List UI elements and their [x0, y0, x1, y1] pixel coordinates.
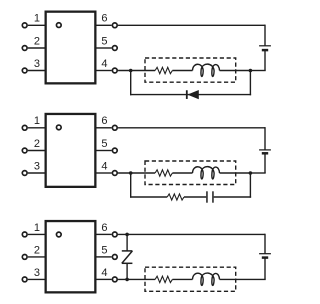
snubber capacitor	[206, 191, 208, 202]
junction left	[129, 171, 133, 175]
coil row wire resistor-to-inductor	[172, 172, 192, 174]
svg-text:4: 4	[101, 58, 107, 70]
pin 1 index mark	[56, 23, 61, 28]
svg-text:6: 6	[101, 13, 107, 25]
svg-text:1: 1	[34, 115, 40, 127]
pin 1 wire	[28, 233, 45, 235]
coil resistor	[155, 67, 172, 73]
diode (flyback)	[189, 91, 199, 99]
pin 4 wire	[97, 172, 112, 174]
pin 2 wire	[28, 47, 45, 49]
coil row wire resistor-to-inductor	[172, 70, 192, 72]
coil resistor	[155, 170, 172, 176]
coil inductance	[193, 167, 220, 179]
terminal pin 2	[22, 255, 27, 260]
battery	[259, 45, 271, 47]
pin 2 wire	[28, 256, 45, 258]
terminal pin 1	[22, 125, 27, 130]
IC package (6-pin relay outline)	[46, 114, 96, 187]
coil inductance	[193, 273, 220, 285]
terminal pin 3	[22, 277, 27, 282]
svg-text:2: 2	[34, 138, 40, 150]
varistor (surge absorber)	[122, 250, 133, 252]
terminal pin 5	[112, 255, 117, 260]
pin 1 wire	[28, 24, 45, 26]
terminal pin 5	[112, 46, 117, 51]
suppressor branch wire	[130, 196, 167, 198]
svg-text:3: 3	[34, 267, 40, 279]
pin 3 wire	[28, 278, 45, 280]
pin 5 wire	[97, 150, 112, 152]
svg-text:1: 1	[34, 13, 40, 25]
left drop wire	[130, 71, 132, 96]
coil row wire inductor-to-node	[220, 172, 251, 174]
junction pin6 node	[125, 233, 129, 237]
svg-text:3: 3	[34, 160, 40, 172]
pin 2 wire	[28, 150, 45, 152]
terminal pin 3	[22, 68, 27, 73]
battery	[259, 149, 271, 151]
pin 4 wire	[97, 70, 112, 72]
junction left	[129, 69, 133, 73]
wire battery to coil row	[264, 50, 266, 70]
wire pin4 to coil	[118, 278, 155, 280]
snubber resistor	[167, 194, 184, 200]
pin 5 wire	[97, 256, 112, 258]
junction pin4 node	[125, 278, 129, 282]
right drop wire	[249, 173, 251, 198]
terminal pin 4	[112, 171, 117, 176]
wire pin6 to battery	[118, 233, 265, 235]
pin 3 wire	[28, 70, 45, 72]
wire pin4 to coil	[118, 172, 155, 174]
wire battery to coil row	[264, 153, 266, 173]
terminal pin 2	[22, 148, 27, 153]
wire pin4 to coil	[118, 70, 155, 72]
terminal pin 5	[112, 148, 117, 153]
coil resistor	[155, 276, 172, 282]
wire pin6 to battery	[118, 24, 265, 26]
wire battery to coil row	[264, 258, 266, 280]
terminal pin 6	[112, 125, 117, 130]
terminal pin 1	[22, 23, 27, 28]
pin 5 wire	[97, 47, 112, 49]
right drop wire	[249, 71, 251, 96]
suppressor branch wire	[130, 94, 251, 96]
terminal pin 4	[112, 277, 117, 282]
varistor vertical wires	[126, 234, 128, 251]
svg-text:5: 5	[101, 35, 107, 47]
terminal pin 3	[22, 171, 27, 176]
svg-text:4: 4	[101, 160, 107, 172]
battery	[259, 253, 271, 255]
junction right	[249, 171, 253, 175]
svg-text:3: 3	[34, 58, 40, 70]
svg-text:4: 4	[101, 267, 107, 279]
svg-text:5: 5	[101, 138, 107, 150]
IC package (6-pin relay outline)	[46, 221, 96, 292]
svg-text:6: 6	[101, 115, 107, 127]
svg-text:2: 2	[34, 244, 40, 256]
pin 6 wire	[97, 24, 112, 26]
svg-text:6: 6	[101, 222, 107, 234]
IC package (6-pin relay outline)	[46, 12, 96, 84]
pin 6 wire	[97, 233, 112, 235]
terminal pin 4	[112, 68, 117, 73]
relay coil dashed outline	[145, 267, 236, 291]
svg-text:2: 2	[34, 35, 40, 47]
coil row wire resistor-to-inductor	[172, 278, 192, 280]
terminal pin 6	[112, 23, 117, 28]
coil inductance	[193, 64, 220, 76]
coil row wire inductor-to-node	[220, 70, 251, 72]
terminal pin 6	[112, 232, 117, 237]
svg-text:1: 1	[34, 222, 40, 234]
coil row wire inductor-to-battery	[220, 278, 236, 280]
wire pin6 to battery	[118, 127, 265, 129]
left drop wire	[130, 173, 132, 198]
terminal pin 1	[22, 232, 27, 237]
junction right	[249, 69, 253, 73]
pin 4 wire	[97, 278, 112, 280]
pin 1 index mark	[56, 125, 61, 130]
pin 3 wire	[28, 172, 45, 174]
relay coil dashed outline	[145, 58, 236, 82]
svg-text:5: 5	[101, 244, 107, 256]
terminal pin 2	[22, 46, 27, 51]
pin 1 wire	[28, 127, 45, 129]
relay coil dashed outline	[145, 161, 236, 185]
pin 6 wire	[97, 127, 112, 129]
pin 1 index mark	[56, 232, 61, 237]
